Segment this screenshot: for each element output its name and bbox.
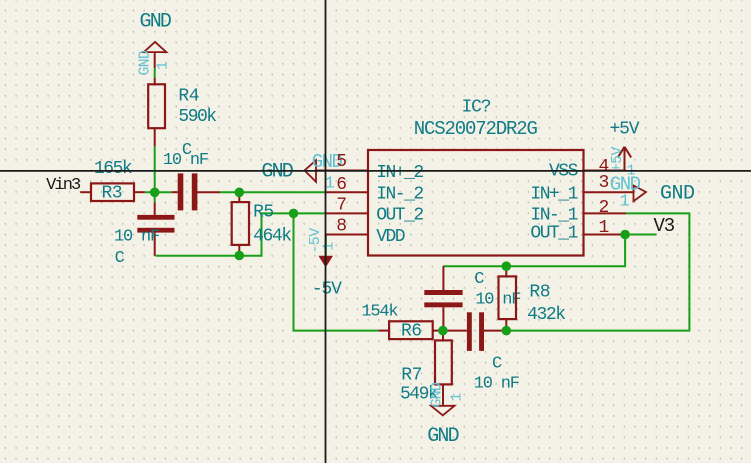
pin 2 IN-_1 (530, 198, 626, 226)
junction R5 bottom (235, 251, 245, 261)
wire C1 right to node B to pin6 (220, 191, 326, 193)
pin 6 IN-_2 (326, 175, 423, 205)
wire OUT_2 down to R6 left (294, 213, 379, 330)
svg-text:10 nF: 10 nF (163, 151, 208, 170)
svg-text:10 nF: 10 nF (474, 374, 519, 393)
capacitor C4 (horizontal, bottom 10nF) (447, 312, 501, 351)
svg-text:590k: 590k (178, 107, 216, 127)
svg-text:3: 3 (599, 173, 610, 193)
svg-text:VDD: VDD (376, 227, 405, 247)
capacitor C3 (vertical, near R8) (424, 266, 462, 330)
wire pin2 right down to R8 bottom (511, 213, 689, 330)
svg-text:1: 1 (321, 242, 338, 251)
power symbol -5V (307, 228, 338, 267)
svg-text:R8: R8 (529, 282, 550, 302)
svg-text:GND: GND (140, 10, 171, 33)
svg-text:2: 2 (599, 198, 610, 218)
svg-text:165k: 165k (94, 159, 132, 179)
svg-text:6: 6 (336, 175, 347, 195)
pin 7 OUT_2 (326, 196, 423, 226)
wire pin1 to V3 label (626, 234, 657, 236)
svg-text:IN-_2: IN-_2 (376, 184, 423, 204)
junction OUT_2 branch (289, 209, 299, 219)
resistor R5 (232, 192, 249, 255)
svg-text:8: 8 (336, 216, 347, 236)
svg-text:NCS20072DR2G: NCS20072DR2G (414, 118, 538, 140)
svg-text:-5V: -5V (312, 280, 342, 300)
svg-text:1: 1 (449, 392, 466, 401)
svg-text:V3: V3 (654, 215, 675, 237)
svg-text:1: 1 (620, 193, 630, 212)
ground symbol at R4 top (136, 42, 171, 76)
wire pin1 down to C3 top rail (443, 235, 625, 267)
junction node A (150, 188, 160, 198)
sheet origin axis vertical (325, 0, 327, 463)
svg-text:C: C (474, 270, 484, 289)
wire VDD pin8 down to -5V (325, 235, 327, 257)
pin 1 OUT_1 (530, 218, 626, 243)
svg-text:154k: 154k (361, 303, 398, 322)
svg-text:C: C (492, 354, 502, 373)
svg-text:GND: GND (261, 161, 292, 184)
pin 3 IN+_1 (530, 173, 626, 204)
ground symbol at R7 bottom (428, 382, 465, 415)
junction node B (R5 top) (235, 188, 245, 198)
svg-text:432k: 432k (527, 305, 565, 325)
svg-text:IN+_1: IN+_1 (530, 184, 577, 204)
sheet origin axis horizontal (0, 170, 751, 172)
ground symbol at pin3 (610, 173, 646, 211)
capacitor C2 (vertical, 10nF) (137, 203, 174, 256)
svg-text:GND: GND (428, 382, 445, 407)
svg-text:+5V: +5V (609, 146, 626, 172)
power symbol +5V (609, 146, 635, 179)
wire Vin3 node A segment (145, 191, 172, 193)
resistor R3 (80, 183, 144, 201)
svg-text:R3: R3 (102, 184, 123, 204)
svg-text:R6: R6 (401, 322, 422, 342)
junction R8 bottom (502, 326, 512, 336)
svg-text:OUT_1: OUT_1 (530, 223, 577, 243)
svg-text:GND: GND (136, 50, 153, 75)
svg-text:Vin3: Vin3 (46, 176, 81, 195)
svg-text:IN+_2: IN+_2 (376, 163, 423, 183)
pin 8 VDD (326, 216, 405, 247)
svg-text:+5V: +5V (610, 120, 640, 140)
svg-text:C: C (115, 249, 125, 268)
resistor R8 (499, 266, 517, 330)
junction pin1 (620, 230, 630, 240)
svg-text:GND: GND (660, 183, 695, 206)
op-amp IC U1 body (368, 150, 584, 256)
svg-text:IC?: IC? (462, 98, 491, 118)
svg-text:OUT_2: OUT_2 (376, 206, 423, 226)
svg-text:R5: R5 (253, 202, 274, 222)
resistor R4 (148, 52, 165, 146)
resistor R6 (378, 321, 443, 339)
junction C3 top rail (502, 261, 512, 271)
svg-text:5: 5 (336, 152, 347, 172)
svg-text:464k: 464k (253, 226, 291, 246)
pin 5 IN+_2 (326, 152, 423, 183)
svg-text:1: 1 (599, 218, 610, 238)
svg-text:10 nF: 10 nF (114, 228, 159, 247)
capacitor C1 (horizontal, 10nF) (171, 173, 220, 210)
svg-text:R7: R7 (401, 366, 422, 386)
junction R6 right (438, 326, 448, 336)
wire C2 bottom across to OUT_2 (156, 213, 326, 255)
resistor R7 (435, 331, 452, 406)
svg-text:R4: R4 (178, 86, 199, 106)
svg-text:7: 7 (336, 196, 347, 216)
svg-text:GND: GND (427, 425, 458, 448)
pin 4 VSS (549, 157, 626, 181)
wire R4 bottom to node A (154, 146, 156, 203)
svg-text:1: 1 (155, 61, 172, 70)
ground symbol at pin5 (305, 151, 343, 194)
